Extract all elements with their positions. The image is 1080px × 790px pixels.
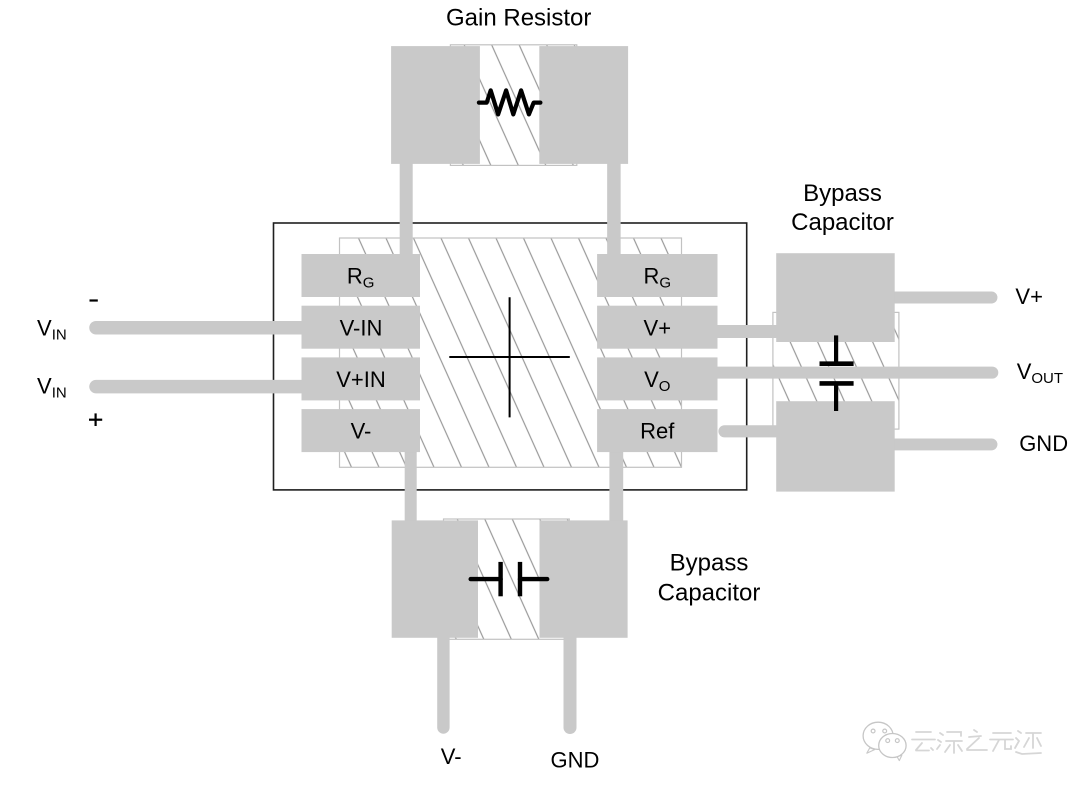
wire: Ref pad down to bottom capacitor: [609, 445, 623, 530]
svg-text:V+: V+: [1015, 284, 1043, 309]
capacitor symbol C2 left lead: [471, 577, 501, 581]
wire: GND output trace: [890, 438, 992, 450]
IC U1 hatched body: [340, 238, 682, 467]
wire: gain resistor right leg to RG pad: [607, 160, 621, 260]
svg-text:V-IN: V-IN: [340, 315, 383, 340]
IC U1 package outline: [274, 223, 747, 490]
die cross vertical: [509, 297, 511, 417]
svg-text:Capacitor: Capacitor: [658, 580, 761, 607]
bypass capacitor C2 left pad: [392, 520, 478, 637]
bypass capacitor C1 top pad: [776, 253, 895, 342]
svg-text:V-: V-: [351, 419, 372, 444]
pad V+: [597, 306, 717, 349]
pad RG right: [597, 254, 717, 297]
pad RG left: [302, 254, 421, 297]
resistor symbol RG zigzag: [479, 90, 541, 114]
wire: V+ pad to capacitor top pad: [714, 325, 780, 338]
watermark wechat logo small bubble eyes: [886, 739, 890, 743]
svg-text:Gain Resistor: Gain Resistor: [446, 5, 591, 32]
wire: V- pad down to bottom capacitor: [405, 445, 417, 530]
pad V-IN: [302, 306, 421, 349]
watermark wechat logo big bubble: [863, 722, 893, 753]
svg-text:GND: GND: [1019, 431, 1068, 456]
wire: V- leg below bottom capacitor: [437, 630, 449, 728]
svg-text:Ref: Ref: [640, 419, 675, 444]
label VIN plus sign: [89, 413, 102, 426]
capacitor symbol C1 bottom plate: [820, 381, 854, 386]
bypass capacitor C1 bottom pad: [776, 401, 895, 491]
capacitor symbol C1 top plate: [820, 361, 854, 366]
bypass capacitor C2 body (hatched, bottom): [444, 519, 570, 639]
pad V-: [302, 409, 421, 452]
svg-text:Bypass: Bypass: [803, 180, 882, 207]
capacitor symbol C2 right lead: [520, 577, 547, 581]
wire: GND leg below bottom capacitor: [564, 630, 577, 728]
watermark text strokes (云深之无迹 approximation): [912, 730, 1041, 754]
bypass capacitor C2 right pad: [540, 520, 628, 637]
watermark wechat logo big bubble eyes: [871, 729, 875, 733]
svg-text:Bypass: Bypass: [670, 550, 749, 577]
wire: gain resistor left leg to RG pad: [400, 160, 413, 260]
die cross horizontal: [449, 356, 570, 358]
capacitor symbol C2 right plate: [518, 562, 522, 596]
gain resistor left pad: [391, 46, 480, 164]
wire: V+ output trace: [890, 292, 992, 304]
gain resistor right pad: [539, 46, 628, 164]
svg-text:GND: GND: [550, 748, 599, 773]
wire: VO pad to VOUT: [714, 367, 992, 379]
wire: V+IN input trace: [96, 380, 310, 394]
gain resistor body (hatched): [450, 45, 576, 166]
svg-text:V-: V-: [441, 744, 462, 769]
watermark wechat logo small bubble: [879, 734, 906, 761]
capacitor symbol C2 left plate: [498, 562, 502, 596]
pad VO: [597, 357, 717, 400]
bypass capacitor C1 body (hatched, right): [773, 312, 899, 429]
pad V+IN: [302, 357, 421, 400]
capacitor symbol C1 bottom lead: [834, 383, 838, 411]
svg-text:Capacitor: Capacitor: [791, 209, 894, 236]
label VIN minus sign: [90, 299, 98, 301]
capacitor symbol C1 top lead: [834, 335, 838, 363]
pad Ref: [597, 409, 717, 452]
svg-text:V+: V+: [644, 315, 672, 340]
svg-text:V+IN: V+IN: [336, 367, 386, 392]
wire: Ref pad stub to capacitor bottom pad: [725, 425, 781, 437]
wire: V-IN input trace: [96, 321, 310, 335]
